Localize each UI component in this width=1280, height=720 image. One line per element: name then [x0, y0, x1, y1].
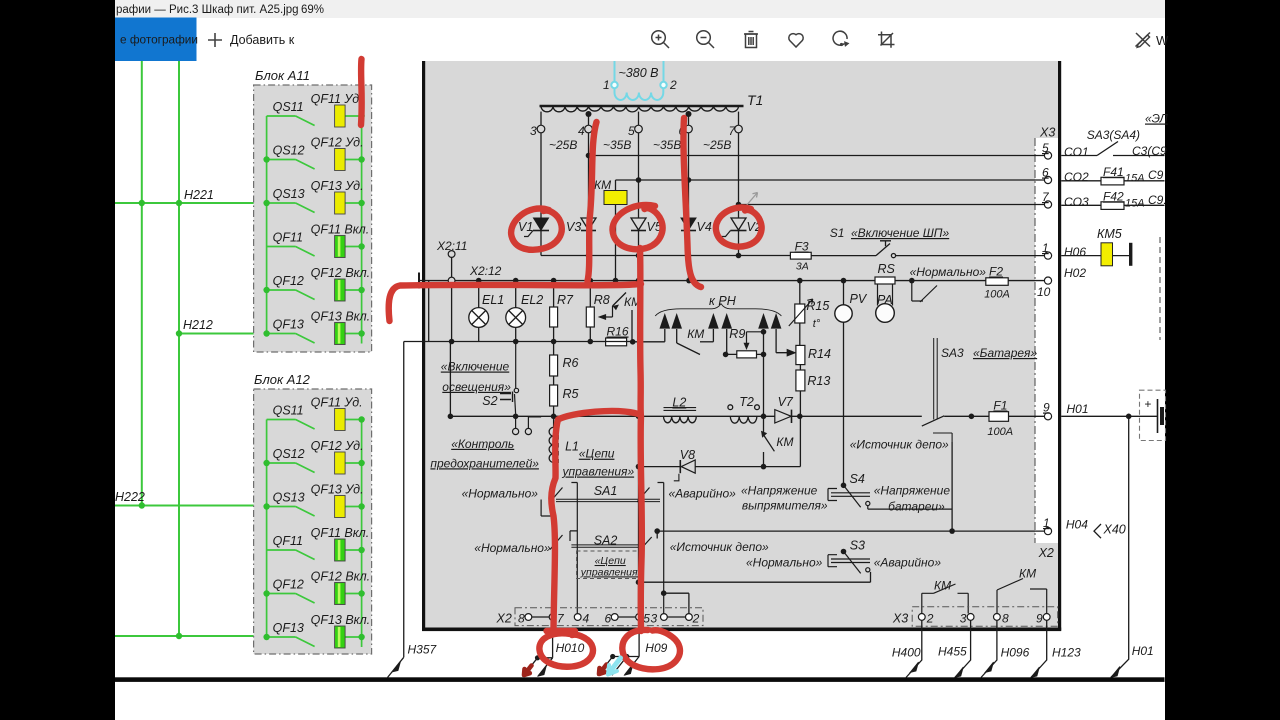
node wire4/CO1 — [586, 153, 592, 159]
wire wire5 down — [638, 281, 640, 486]
node SA3/F1 — [969, 414, 975, 420]
wire CO3 to F42 — [1061, 204, 1164, 206]
terminal X2:5 — [636, 614, 643, 621]
node bus/R7 — [551, 278, 557, 284]
block А12 right bus — [361, 420, 363, 648]
svg-text:4: 4 — [583, 612, 590, 626]
fuse F2 — [986, 278, 1008, 286]
svg-text:выпрямителя»: выпрямителя» — [742, 499, 828, 513]
wire H222 — [115, 505, 268, 507]
resistor R13 — [796, 365, 805, 467]
wire H01 — [1061, 415, 1157, 417]
indicator element QF11 Уд. (А12) — [335, 409, 346, 431]
svg-text:S1: S1 — [830, 226, 845, 240]
svg-text:QF13: QF13 — [273, 318, 304, 332]
svg-text:QF11 Уд.: QF11 Уд. — [311, 92, 363, 106]
svg-text:R7: R7 — [557, 293, 574, 307]
wire CO2 to F41 — [1061, 180, 1164, 182]
svg-text:W: W — [1156, 33, 1169, 48]
wire to A12 bottom row — [115, 635, 268, 637]
svg-text:3А: 3А — [796, 261, 809, 273]
svg-text:Н400: Н400 — [892, 646, 921, 660]
switch S4 (voltage select) — [828, 485, 870, 507]
fuse F41 — [1101, 177, 1124, 185]
wire H04 row — [657, 531, 1044, 538]
svg-text:X2:12: X2:12 — [469, 264, 502, 278]
svg-text:КМ: КМ — [934, 579, 951, 593]
block А12 left bus — [266, 420, 268, 638]
wire PH line 1 — [633, 329, 665, 342]
breaker contact QS11 of А11 — [267, 116, 315, 126]
svg-text:QF12 Вкл.: QF12 Вкл. — [311, 266, 371, 280]
svg-text:Блок А11: Блок А11 — [255, 68, 310, 83]
wire PH line 5 — [763, 329, 765, 354]
svg-text:F3: F3 — [795, 240, 809, 254]
drawing frame bottom line — [115, 677, 1165, 682]
svg-text:2: 2 — [669, 78, 677, 92]
transformer T1 secondary winding 5-6 — [639, 106, 689, 112]
svg-text:освещения»: освещения» — [442, 380, 511, 394]
svg-text:69%: 69% — [301, 4, 324, 16]
indicator element QF13 Вкл. (А11) — [335, 323, 346, 345]
breaker contact QS12 of А11 — [267, 160, 315, 170]
transformer T1 secondary winding 3-4 — [541, 106, 589, 112]
svg-text:QS12: QS12 — [273, 447, 305, 461]
potentiometer R8 — [586, 281, 612, 342]
annotation red circle V5 + trace to H09 — [547, 205, 663, 631]
wire 3-2 link — [667, 616, 685, 618]
wire L1 chain down — [553, 486, 555, 613]
svg-text:3: 3 — [530, 124, 537, 138]
annotation red trace wire6 hook — [683, 118, 701, 287]
resistor R6 — [550, 342, 558, 377]
wire terminal 3 drop — [540, 112, 542, 125]
svg-text:Н357: Н357 — [408, 643, 438, 657]
svg-text:«Нормально»: «Нормально» — [474, 541, 551, 555]
breaker contact QS12 of А12 — [267, 463, 315, 473]
wire vertical feeder A — [141, 61, 143, 506]
node bus/wire5 — [636, 278, 642, 284]
svg-text:SA3(SA4): SA3(SA4) — [1087, 128, 1140, 142]
breaker contact QS13 of А12 — [267, 507, 315, 517]
svg-text:QF11: QF11 — [273, 231, 303, 245]
terminal X3:10 — [1044, 277, 1051, 284]
svg-text:SA2: SA2 — [594, 534, 618, 548]
node R9 right — [761, 352, 767, 358]
diode V2 (thyristor) — [722, 218, 747, 256]
contactor coil KM5 — [1061, 243, 1132, 266]
primary terminal circle 2 — [660, 82, 666, 88]
left green distribution circuit — [115, 61, 268, 636]
svg-text:R9: R9 — [729, 327, 745, 341]
svg-text:5: 5 — [628, 124, 635, 138]
node H04/PV selector — [949, 528, 955, 534]
svg-text:«Включение ШП»: «Включение ШП» — [851, 226, 950, 240]
svg-text:PA: PA — [877, 293, 893, 307]
wire H010 exit — [523, 620, 553, 676]
resistor R7 — [550, 281, 558, 342]
annotation red circle H010 — [539, 633, 593, 666]
wire H357 vertical — [403, 342, 405, 658]
svg-text:V4: V4 — [697, 220, 712, 234]
title strip — [115, 0, 1165, 18]
breaker contact QF13 of А12 — [267, 637, 315, 647]
terminal X2:2 — [686, 614, 693, 621]
svg-text:H04: H04 — [1066, 518, 1088, 532]
svg-text:L2: L2 — [672, 395, 686, 409]
svg-text:«Нормально»: «Нормально» — [746, 556, 823, 570]
wire H400 exit — [906, 620, 922, 677]
svg-text:КМ: КМ — [776, 435, 793, 449]
zoom out icon — [697, 31, 711, 45]
wire H221 — [115, 202, 267, 204]
node H222/feeder A junction — [139, 502, 145, 508]
terminal X3:3 — [967, 614, 974, 621]
resistor R16 — [606, 338, 627, 346]
svg-text:~35В: ~35В — [653, 138, 681, 152]
brace к РН — [655, 304, 781, 316]
svg-text:«Напряжение: «Напряжение — [741, 484, 818, 498]
terminal X3:9 — [1044, 413, 1051, 420]
terminal X3:8 — [994, 614, 1001, 621]
svg-text:S3: S3 — [850, 539, 865, 553]
svg-text:Н01: Н01 — [1132, 644, 1154, 658]
svg-text:S4: S4 — [850, 472, 865, 486]
svg-text:6: 6 — [1042, 166, 1049, 180]
schematic panel background — [425, 61, 1058, 628]
svg-text:X40: X40 — [1103, 523, 1126, 537]
node bus/PV — [841, 278, 847, 284]
node bus/bypass switch — [909, 278, 915, 284]
svg-text:QF12 Уд.: QF12 Уд. — [311, 136, 364, 150]
wire 3 to rectifier — [540, 133, 542, 218]
annotation red circle V1 — [511, 209, 562, 250]
node wire7/CO3 — [736, 202, 742, 208]
wire vertical feeder B — [178, 61, 180, 636]
terminal X3:6 — [1044, 176, 1051, 183]
relay block А12 — [254, 389, 372, 654]
wire X2:12 drop — [451, 284, 453, 342]
annotation red trace wire4 to bus-left hook — [389, 122, 641, 321]
svg-text:F1: F1 — [993, 399, 1007, 413]
switch SA1 — [550, 483, 664, 614]
svg-text:«Включение: «Включение — [441, 360, 510, 374]
node KM/V8 row — [761, 464, 767, 470]
svg-text:8: 8 — [1002, 611, 1009, 625]
indicator element QF13 Вкл. (А12) — [335, 626, 346, 648]
wire KM coil to bus — [615, 205, 617, 281]
terminal X2:1 — [1044, 528, 1051, 535]
node R9 left — [723, 352, 729, 358]
wire PH line 2 — [676, 329, 678, 343]
wire H123 exit — [1031, 620, 1047, 677]
svg-text:R13: R13 — [807, 374, 830, 388]
node wire5/control row — [636, 414, 642, 420]
svg-text:C9: C9 — [1148, 168, 1164, 182]
wire PH5 down to V8 row — [763, 354, 765, 466]
svg-text:H01: H01 — [1067, 402, 1089, 416]
svg-text:EL2: EL2 — [521, 293, 543, 307]
node H010 junction — [535, 655, 540, 660]
block А11 left bus — [266, 116, 268, 334]
svg-text:QS13: QS13 — [273, 491, 305, 505]
wire 6 to rectifier — [688, 133, 690, 218]
svg-text:R16: R16 — [607, 325, 629, 339]
svg-text:Н123: Н123 — [1052, 646, 1081, 660]
node R9 feed — [761, 329, 767, 335]
svg-text:Н212: Н212 — [183, 318, 213, 332]
svg-text:~25В: ~25В — [549, 138, 577, 152]
node terminal 4 top — [586, 111, 592, 117]
svg-text:QF13 Вкл.: QF13 Вкл. — [311, 613, 371, 627]
svg-text:QS13: QS13 — [273, 187, 305, 201]
rotate icon — [833, 31, 847, 45]
node bus/R15 — [797, 278, 803, 284]
svg-text:управления»: управления» — [580, 566, 644, 578]
indicator element QF13 Уд. (А11) — [335, 192, 346, 214]
connector X3 dashed box (bottom) — [912, 607, 1057, 627]
annotation red arrowhead mark (H010) — [524, 666, 532, 676]
wire terminal 7 drop — [738, 112, 740, 125]
svg-text:RS: RS — [878, 262, 896, 276]
terminal X2:4 — [574, 614, 581, 621]
fuse F1 — [989, 412, 1044, 422]
svg-text:КМ: КМ — [594, 178, 611, 192]
terminal circle 3 — [537, 125, 545, 133]
wire drop to control row — [449, 342, 451, 417]
heart icon — [789, 34, 803, 47]
svg-text:15А: 15А — [1125, 173, 1145, 185]
svg-text:CO3: CO3 — [1064, 195, 1089, 209]
node V3 cathode — [586, 253, 592, 259]
svg-text:C3(C9: C3(C9 — [1132, 144, 1167, 158]
wire H357 exit — [388, 657, 404, 677]
svg-text:H06: H06 — [1064, 245, 1086, 259]
node S3 pole — [841, 549, 847, 555]
terminal X3:1 — [1044, 252, 1051, 259]
svg-text:«Напряжение: «Напряжение — [874, 484, 951, 498]
inductor L2 — [664, 408, 697, 423]
wire 7 to rectifier — [738, 133, 740, 218]
svg-text:QF13 Уд.: QF13 Уд. — [311, 483, 364, 497]
node wire5/CO2 — [636, 177, 642, 183]
svg-text:Н096: Н096 — [1001, 646, 1030, 660]
svg-text:~25В: ~25В — [703, 138, 731, 152]
node H04/SA2 bracket — [654, 528, 660, 534]
svg-text:V8: V8 — [680, 448, 695, 462]
node V4 cathode — [686, 253, 692, 259]
terminal X3:7 — [1044, 201, 1051, 208]
svg-text:QF11 Вкл.: QF11 Вкл. — [311, 223, 370, 237]
svg-text:S2: S2 — [482, 394, 497, 408]
switch SA2 — [550, 531, 652, 551]
wire emergency branch — [664, 593, 689, 613]
svg-text:SA3: SA3 — [941, 346, 964, 360]
terminal circle 4 — [585, 125, 593, 133]
terminal circle 5 — [635, 125, 643, 133]
svg-text:QF11 Уд.: QF11 Уд. — [311, 396, 363, 410]
svg-text:R14: R14 — [808, 347, 831, 361]
transformer T1 secondary winding 4-5 — [589, 106, 639, 112]
terminal circle 7 — [735, 125, 743, 133]
wire H096 exit — [981, 620, 997, 677]
switch SA3(SA4) on CO1 — [1061, 142, 1164, 156]
svg-text:е фотографии: е фотографии — [120, 33, 198, 47]
svg-text:X2: X2 — [1038, 546, 1054, 560]
primary terminal circle 1 — [611, 82, 617, 88]
terminal circle 6 — [685, 125, 693, 133]
svg-text:QF13 Вкл.: QF13 Вкл. — [311, 310, 371, 324]
svg-text:«Контроль: «Контроль — [451, 437, 514, 451]
svg-text:SA1: SA1 — [594, 484, 618, 498]
node H09 junction b — [624, 654, 629, 659]
svg-text:КМ5: КМ5 — [1097, 227, 1122, 241]
svg-text:QF12: QF12 — [273, 274, 304, 288]
wire depot row — [639, 572, 871, 582]
svg-text:QF13 Уд.: QF13 Уд. — [311, 179, 364, 193]
wire terminal 4 drop — [588, 112, 590, 125]
svg-text:QS11: QS11 — [273, 404, 304, 418]
svg-text:~35В: ~35В — [603, 138, 631, 152]
annotation red circle H09 — [622, 630, 680, 669]
node H09 junction a — [610, 654, 615, 659]
svg-text:3: 3 — [651, 612, 658, 626]
indicator element QF11 Вкл. (А11) — [335, 236, 346, 258]
svg-text:L1: L1 — [565, 440, 579, 454]
connector arrow X40 — [1094, 524, 1101, 538]
contact KM PH — [677, 343, 700, 355]
svg-text:T2: T2 — [739, 395, 754, 409]
wire V5 cathode to bus — [638, 256, 640, 281]
wire CO3 row — [739, 204, 1045, 206]
node X2:12 drop/lamp row — [449, 339, 455, 345]
wire H455 exit — [955, 620, 971, 677]
wire 5 to rectifier — [638, 133, 640, 218]
indicator element QF13 Уд. (А12) — [335, 496, 346, 518]
node H221/feeder A junction — [139, 200, 145, 206]
svg-text:1: 1 — [1042, 241, 1049, 255]
indicator element QF11 Вкл. (А12) — [335, 539, 346, 561]
control-circuits dashed box — [577, 551, 642, 579]
transformer T1 secondary winding 6-7 — [689, 106, 739, 112]
svg-text:Н455: Н455 — [938, 645, 967, 659]
wire control row — [450, 415, 989, 417]
node wire6/CO2 — [686, 177, 692, 183]
add-to button — [208, 33, 222, 47]
wire bus drop left — [428, 281, 430, 342]
svg-text:100А: 100А — [987, 426, 1013, 438]
indicator element QF12 Уд. (А12) — [335, 452, 346, 474]
breaker contact QS11 of А12 — [267, 420, 315, 430]
node feeder B bottom junction — [176, 633, 182, 639]
diode V4 (filled) — [681, 218, 696, 256]
svg-text:2: 2 — [926, 611, 934, 625]
terminal X2:8 — [525, 614, 532, 621]
node H01 branch — [1126, 414, 1132, 420]
svg-text:2: 2 — [692, 612, 700, 626]
contactor coil KM — [604, 191, 627, 205]
diode V3 — [581, 218, 596, 256]
block А11 right bus — [361, 116, 363, 344]
svg-text:CO2: CO2 — [1064, 170, 1089, 184]
lamp EL1 — [469, 281, 489, 342]
wire 8-7 link — [532, 616, 549, 618]
svg-text:~380 В: ~380 В — [619, 66, 659, 80]
node EL2/S2 — [513, 339, 519, 345]
node PH5/control row — [761, 414, 767, 420]
transformer T1 primary lead 2 — [663, 61, 665, 82]
panel right border — [1058, 61, 1061, 631]
fuse F42 — [1101, 202, 1124, 210]
terminal X2:3 — [661, 614, 668, 621]
svg-text:QF11: QF11 — [273, 534, 303, 548]
resistor R14 — [796, 345, 805, 364]
wire H09 exit — [598, 620, 639, 675]
svg-text:«Батарея»: «Батарея» — [973, 346, 1037, 360]
breaker contact QF11 of А12 — [267, 550, 315, 560]
svg-text:100А: 100А — [984, 289, 1010, 301]
crop icon — [882, 32, 895, 45]
node terminal 6 top — [686, 111, 692, 117]
svg-text:«ЭЛ: «ЭЛ — [1145, 112, 1168, 126]
svg-text:Н09: Н09 — [645, 641, 667, 655]
relay block А11 — [254, 85, 372, 352]
indicator element QF12 Вкл. (А12) — [335, 583, 346, 605]
contact KM (R8 wiper) — [613, 293, 633, 342]
wire PH line 3 — [712, 329, 714, 342]
transformer T1 primary lead 1 (380V highlighted) — [614, 61, 616, 82]
panel left border — [422, 61, 425, 631]
terminal X3:5 — [1044, 152, 1051, 159]
node R7/R6 — [551, 339, 557, 345]
node bus/R8 — [588, 278, 594, 284]
svg-text:QS11: QS11 — [273, 100, 304, 114]
node SA1 normal — [551, 513, 557, 519]
node emergency branch — [661, 590, 667, 596]
svg-text:Добавить к: Добавить к — [230, 33, 295, 47]
svg-text:F42: F42 — [1103, 190, 1124, 204]
svg-text:5: 5 — [1042, 141, 1049, 155]
svg-text:R15: R15 — [806, 299, 829, 313]
resistor R9 — [726, 332, 764, 358]
node bus/KM coil — [613, 278, 619, 284]
svg-text:«Аварийно»: «Аварийно» — [669, 487, 737, 501]
node V2 cathode — [736, 253, 742, 259]
node R16/PH1 — [630, 339, 636, 345]
svg-text:«Цепи: «Цепи — [579, 447, 615, 461]
svg-text:H02: H02 — [1064, 266, 1086, 280]
wire terminal 6 drop — [688, 112, 690, 125]
wire bus end tick — [418, 273, 420, 289]
annotation red line over A11 bus — [358, 59, 365, 125]
svg-text:F2: F2 — [989, 265, 1003, 279]
diode V8 — [674, 460, 695, 481]
node bus/wire6 — [686, 278, 692, 284]
svg-text:3: 3 — [960, 611, 967, 625]
node wire5/V8 row — [636, 464, 642, 470]
resistor R5 — [550, 376, 558, 416]
wire V4 cathode to bus — [688, 256, 690, 281]
diode V7 — [775, 410, 792, 423]
test jacks «Контроль предохранителей» — [513, 416, 542, 434]
thermistor R15 — [789, 281, 813, 346]
wire CO1 row — [589, 155, 1045, 157]
svg-text:1: 1 — [1043, 516, 1050, 530]
svg-text:10: 10 — [1037, 285, 1051, 299]
svg-text:R6: R6 — [563, 356, 579, 370]
node depot row — [636, 579, 642, 585]
svg-text:QS12: QS12 — [273, 144, 305, 158]
